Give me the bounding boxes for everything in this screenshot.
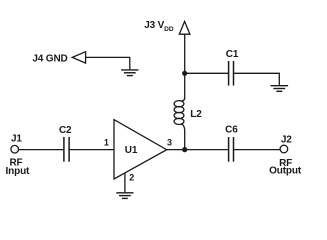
capacitor C1 <box>229 61 234 86</box>
pin 2 wire <box>124 173 126 192</box>
connector J2 terminal <box>280 145 288 153</box>
svg-text:J3 VDD: J3 VDD <box>144 20 174 33</box>
node VDD junction <box>182 71 187 76</box>
connector J4 GND arrow <box>72 52 85 63</box>
ground at J4 wire <box>121 70 138 76</box>
wire node to C1 <box>185 72 229 74</box>
capacitor C2 <box>64 137 69 162</box>
svg-text:2: 2 <box>129 172 134 182</box>
wire node to inductor <box>184 73 186 97</box>
svg-text:3: 3 <box>167 137 172 147</box>
svg-text:L2: L2 <box>190 109 202 120</box>
svg-text:U1: U1 <box>125 145 138 156</box>
wire VDD to node <box>184 34 186 73</box>
svg-text:Output: Output <box>269 166 302 177</box>
svg-text:J2: J2 <box>281 134 292 145</box>
wire C6 to J2 <box>234 149 281 151</box>
svg-text:J1: J1 <box>11 134 22 145</box>
wire J1 to C2 <box>18 149 63 151</box>
wire inductor to output node <box>184 131 186 150</box>
power symbol VDD <box>179 21 190 34</box>
wire C2 to U1 pin 1 <box>69 149 114 151</box>
ground at C1 <box>271 86 289 92</box>
svg-text:Input: Input <box>6 166 31 177</box>
svg-text:C6: C6 <box>225 125 238 136</box>
wire C1 to ground <box>234 73 280 85</box>
svg-text:J4 GND: J4 GND <box>32 54 67 65</box>
svg-text:C1: C1 <box>226 49 239 60</box>
node output junction <box>182 147 187 152</box>
ground at U1 pin 2 <box>116 193 133 199</box>
svg-text:1: 1 <box>104 137 109 147</box>
inductor L2 <box>181 97 185 101</box>
wire U1 pin 3 to node <box>167 149 185 151</box>
wire node to C6 <box>185 149 229 151</box>
connector J1 terminal <box>11 145 19 153</box>
op-amp U1 <box>114 120 167 179</box>
wire J4 arrow to ground <box>86 57 130 69</box>
svg-text:C2: C2 <box>59 125 72 136</box>
capacitor C6 <box>229 137 234 162</box>
